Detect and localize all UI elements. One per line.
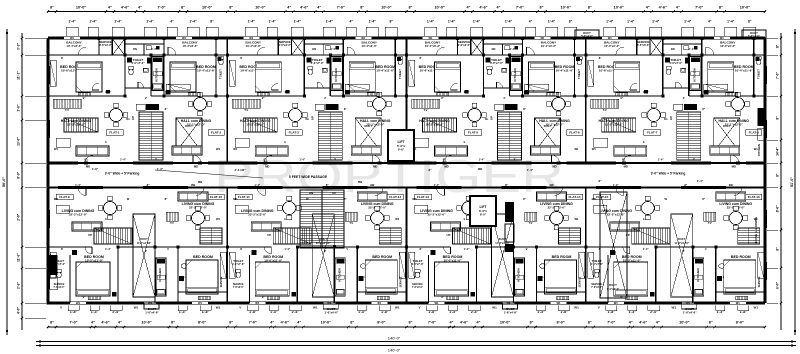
svg-text:10'-0": 10'-0" [76,6,87,10]
svg-text:SERVICE: SERVICE [591,283,602,286]
svg-text:FLAT-2: FLAT-2 [211,131,222,135]
svg-text:1'-4": 1'-4" [369,20,377,24]
svg-text:V: V [346,247,348,251]
svg-text:TOILET: TOILET [756,69,760,79]
svg-text:1'-6"x4'-6": 1'-6"x4'-6" [324,311,338,315]
svg-text:1'-4": 1'-4" [105,90,111,94]
bottom flat module 15 [585,188,587,304]
svg-text:15'-1"x12'-0": 15'-1"x12'-0" [187,123,206,127]
party wall flat 3 [226,38,228,163]
dining table flat 10 [192,212,205,225]
svg-text:8": 8" [588,321,592,325]
svg-text:W1: W1 [134,306,139,310]
dining table flat 12 [371,212,384,225]
svg-text:8": 8" [709,321,713,325]
svg-text:11'-4"x4'-10": 11'-4"x4'-10" [316,242,331,245]
svg-text:UP: UP [447,233,451,237]
bed flat 9 [76,262,110,296]
svg-text:V: V [60,306,62,310]
duct shaft flat 11 [312,214,334,297]
svg-text:1'-4": 1'-4" [284,90,290,94]
svg-text:11'-4"x4'-10": 11'-4"x4'-10" [674,242,689,245]
svg-text:2'-0": 2'-0" [17,104,21,111]
svg-text:5'-6": 5'-6" [398,148,405,152]
svg-text:1'-4": 1'-4" [254,183,260,187]
lift U [388,130,414,161]
svg-text:W1: W1 [249,36,254,40]
svg-text:7'-6"x3'-0": 7'-6"x3'-0" [412,287,423,289]
svg-text:9W: 9W [549,183,553,187]
svg-text:10'-4"x3'-3": 10'-4"x3'-3" [66,44,82,48]
duct shaft between flats 7,8 [714,118,740,152]
svg-text:8": 8" [210,20,214,24]
svg-text:7'-0": 7'-0" [607,321,615,325]
svg-text:1'-4": 1'-4" [326,20,334,24]
svg-text:4": 4" [118,321,122,325]
svg-text:1'-4": 1'-4" [146,20,154,24]
svg-text:1'-8": 1'-8" [428,310,436,314]
dining table flat 3 [289,109,302,122]
svg-text:4": 4" [629,321,633,325]
svg-text:8": 8" [776,44,780,48]
bed flat 1 [76,62,102,92]
bottom dimension chain [48,326,765,328]
svg-text:FLAT-13: FLAT-13 [417,195,429,199]
svg-text:FLAT-12: FLAT-12 [389,195,401,199]
svg-text:10'-4"x3'-3": 10'-4"x3'-3" [425,44,441,48]
svg-text:2'-4": 2'-4" [112,310,120,314]
svg-text:10'-0": 10'-0" [614,6,625,10]
svg-text:5'-0"x4'-0": 5'-0"x4'-0" [581,35,593,38]
svg-text:15'-1"x12'-0": 15'-1"x12'-0" [366,123,385,127]
svg-text:4": 4" [91,321,95,325]
svg-text:1'-3": 1'-3" [157,167,164,171]
svg-text:8": 8" [540,6,544,10]
top dimension chain row 1 [48,11,765,13]
corridor walls [48,162,765,164]
svg-text:TOILET: TOILET [219,69,223,79]
svg-text:W1: W1 [556,301,561,305]
svg-text:140'-0": 140'-0" [388,336,401,341]
svg-text:TOILET: TOILET [398,69,402,79]
svg-text:8'-0": 8'-0" [17,171,21,178]
svg-text:56'-0": 56'-0" [2,177,6,187]
svg-text:8": 8" [229,321,233,325]
svg-text:FLAT-10: FLAT-10 [210,195,222,199]
svg-text:W1: W1 [614,301,619,305]
svg-text:8": 8" [181,6,185,10]
svg-text:3'-6"x3'-0": 3'-6"x3'-0" [458,43,471,47]
svg-text:1'-3": 1'-3" [629,310,637,314]
svg-text:4'-0"x7'-6": 4'-0"x7'-6" [591,262,604,266]
svg-text:1'-4": 1'-4" [89,20,97,24]
svg-text:15'-1"x12'-0": 15'-1"x12'-0" [545,123,564,127]
svg-text:8'-0": 8'-0" [776,205,780,212]
secondary stair flat 5 [423,118,457,132]
svg-text:MD: MD [86,165,90,169]
svg-text:8": 8" [350,321,354,325]
duct shaft between flats 1,2 [176,118,202,152]
svg-text:2'-4 1/2": 2'-4 1/2" [234,168,246,172]
svg-text:T.V: T.V [349,221,353,225]
svg-text:4": 4" [646,6,650,10]
svg-text:SERVICE: SERVICE [579,276,582,287]
svg-text:V: V [155,157,157,161]
svg-text:FLAT-6: FLAT-6 [569,131,580,135]
svg-text:4'-0"x7'-6": 4'-0"x7'-6" [411,262,424,266]
svg-text:W1: W1 [54,147,59,151]
svg-text:10'-4"x3'-3": 10'-4"x3'-3" [362,44,378,48]
secondary stair flat 1 [64,118,98,132]
svg-text:10'-4"x3'-3": 10'-4"x3'-3" [541,44,557,48]
svg-text:7'-0": 7'-0" [516,6,524,10]
svg-text:V: V [526,247,528,251]
svg-text:1'-4": 1'-4" [284,247,290,251]
svg-text:1'-8": 1'-8" [202,310,210,314]
svg-text:1'-4": 1'-4" [684,20,692,24]
sofa flat 3 [255,146,288,156]
svg-text:V: V [705,247,707,251]
svg-text:DN: DN [312,47,316,51]
svg-text:4'-6": 4'-6" [659,6,667,10]
svg-text:1'-4": 1'-4" [479,158,485,162]
svg-text:1'-4": 1'-4" [652,20,660,24]
svg-text:2': 2' [503,96,505,100]
svg-text:8'-0": 8'-0" [557,321,565,325]
svg-text:4": 4" [477,321,481,325]
svg-text:15'-1"x12'-0": 15'-1"x12'-0" [725,123,744,127]
svg-text:8': 8' [61,56,63,60]
svg-text:8": 8" [229,6,233,10]
svg-text:W1: W1 [574,217,579,221]
svg-text:7'-0": 7'-0" [776,72,780,79]
bed flat 2 [170,62,196,92]
svg-text:FLAT-16: FLAT-16 [748,195,760,199]
kitchen appliance stack [505,202,514,222]
svg-text:T.V: T.V [244,108,248,112]
svg-text:8": 8" [171,321,175,325]
svg-text:1'-6"x4'-6": 1'-6"x4'-6" [145,311,159,315]
svg-text:FLAT-15: FLAT-15 [596,195,608,199]
svg-text:6'-0"x4'-0": 6'-0"x4'-0" [607,287,620,291]
svg-text:1'-3": 1'-3" [91,310,99,314]
svg-text:22'-2"x12'-0": 22'-2"x12'-0" [248,213,267,217]
svg-text:1'-4": 1'-4" [114,20,122,24]
svg-text:7'-0": 7'-0" [428,321,436,325]
svg-text:4'-0"x7'-0": 4'-0"x7'-0" [490,61,504,65]
internal stair flat 9 [94,228,132,244]
svg-text:1'-4": 1'-4" [627,20,635,24]
svg-text:V: V [514,157,516,161]
svg-text:W1: W1 [182,36,187,40]
tall duct shaft module4 [600,192,627,298]
svg-text:10'-4"x11'-6": 10'-4"x11'-6" [376,69,394,73]
svg-text:7'-0": 7'-0" [337,6,345,10]
svg-text:1'-3": 1'-3" [717,310,725,314]
svg-text:10'-4"x3'-3": 10'-4"x3'-3" [182,44,198,48]
svg-text:T.V: T.V [65,108,69,112]
svg-text:T.V: T.V [603,108,607,112]
svg-text:10'-4"x11'-6": 10'-4"x11'-6" [735,69,753,73]
svg-text:UP: UP [310,116,314,120]
svg-text:SERVICE: SERVICE [412,283,423,286]
svg-text:2': 2' [145,96,147,100]
svg-text:5 FEET WIDE PASSAGE: 5 FEET WIDE PASSAGE [289,175,328,179]
svg-text:9W: 9W [198,180,203,184]
main staircase [300,190,344,248]
svg-text:10'-4"x11'-6": 10'-4"x11'-6" [197,69,215,73]
svg-text:UP: UP [669,116,673,120]
svg-text:KITCHEN: KITCHEN [155,68,159,81]
svg-text:3'-0" Wide + 5' Parking: 3'-0" Wide + 5' Parking [651,172,686,176]
svg-text:1'-4": 1'-4" [473,20,481,24]
party wall flat 7 [585,38,587,163]
svg-text:4'-0"x7'-6": 4'-0"x7'-6" [232,262,245,266]
dining table flat 11 [283,202,296,215]
internal staircase flat 5 [498,112,522,160]
svg-text:T.V: T.V [170,221,174,225]
bottom flat module 9 [47,188,49,304]
svg-text:8': 8' [240,247,242,251]
svg-text:6'-0": 6'-0" [480,213,487,217]
svg-text:1'-4": 1'-4" [606,20,614,24]
internal staircase flat 7 [677,112,701,160]
svg-text:FLAT-3: FLAT-3 [289,131,300,135]
svg-text:6'-0": 6'-0" [776,282,780,289]
svg-text:1'-4": 1'-4" [643,90,649,94]
left dimension chain [6,29,8,335]
svg-text:8": 8" [409,6,413,10]
svg-text:W1: W1 [574,147,579,151]
bed flat 10 [186,260,218,294]
svg-text:TOILET: TOILET [577,69,581,79]
svg-text:4": 4" [287,6,291,10]
bed flat 3 [255,62,281,92]
svg-text:UP: UP [490,116,494,120]
svg-text:W1: W1 [592,147,597,151]
svg-text:MD: MD [592,197,596,201]
outer walls [48,36,765,39]
right edge kitchen counter [758,108,765,126]
svg-text:DN: DN [133,47,137,51]
svg-text:2'-4": 2'-4" [650,310,658,314]
svg-text:10'-4"x11'-6": 10'-4"x11'-6" [556,69,574,73]
svg-text:SERVICE: SERVICE [758,276,761,287]
sofa flat 11 [251,222,281,231]
svg-text:2': 2' [683,96,685,100]
svg-text:7'-0": 7'-0" [157,6,165,10]
svg-text:1'-4": 1'-4" [643,247,649,251]
svg-text:1'-4": 1'-4" [269,20,277,24]
parking leader line [155,170,263,178]
sofa flat 15 [610,222,640,231]
svg-text:8": 8" [776,247,780,251]
duct shaft between flats 5,6 [535,118,561,152]
svg-text:22'-2"x12'-0": 22'-2"x12'-0" [607,213,626,217]
svg-text:1'-4": 1'-4" [299,158,305,162]
svg-text:UP: UP [626,233,630,237]
svg-text:4'-6": 4'-6" [281,321,289,325]
svg-text:V: V [693,157,695,161]
svg-text:1'-3": 1'-3" [358,310,366,314]
svg-text:2': 2' [324,96,326,100]
svg-text:4'-6": 4'-6" [121,6,129,10]
svg-text:T.V: T.V [529,221,533,225]
svg-text:4'-6": 4'-6" [460,321,468,325]
svg-text:3'-6"x3'-0": 3'-6"x3'-0" [279,43,292,47]
internal stair flat 12 [379,228,401,244]
svg-text:8'-0": 8'-0" [736,321,744,325]
bed flat 13 [435,262,469,296]
svg-text:W1: W1 [736,301,741,305]
svg-text:Dn: Dn [305,117,309,121]
service duct flat 1 [113,39,125,55]
svg-text:1'-3": 1'-3" [449,310,457,314]
svg-text:FLAT-7: FLAT-7 [647,131,658,135]
lift U2 (bottom band) [470,196,496,226]
svg-text:W1: W1 [428,36,433,40]
svg-text:2'-0": 2'-0" [17,213,21,220]
svg-text:1'-4": 1'-4" [505,20,513,24]
left edge kitchen counter [50,255,58,275]
svg-text:7'-6"x3'-0": 7'-6"x3'-0" [54,287,65,289]
svg-text:11'-1": 11'-1" [17,71,21,80]
svg-text:8'-0": 8'-0" [377,321,385,325]
svg-text:DUCT: DUCT [678,237,686,241]
bottom flat module 11 [226,188,228,304]
svg-text:10'-0": 10'-0" [381,6,392,10]
party wall flat 5 [406,38,408,163]
svg-text:W1: W1 [395,217,400,221]
svg-text:13'-0": 13'-0" [17,137,21,146]
sofa flat 5 [435,146,468,156]
svg-text:2': 2' [145,249,147,253]
svg-text:10'-0": 10'-0" [560,6,571,10]
bed flat 5 [435,62,461,92]
svg-text:MD: MD [194,165,198,169]
svg-text:10'-0": 10'-0" [202,6,213,10]
svg-text:1'-4": 1'-4" [464,247,470,251]
sofa flat 1 [76,146,109,156]
svg-text:MD: MD [54,197,58,201]
svg-text:3'-0" Wide + 5' Parking: 3'-0" Wide + 5' Parking [105,172,140,176]
svg-text:W1: W1 [198,301,203,305]
svg-text:LIVING cum DINING: LIVING cum DINING [754,217,758,243]
svg-text:7'-0": 7'-0" [249,321,257,325]
svg-text:FLAT-1: FLAT-1 [109,131,120,135]
svg-text:1'-4": 1'-4" [120,158,126,162]
svg-text:1'-6"x4'-6": 1'-6"x4'-6" [504,311,518,315]
internal stair flat 13 [453,228,491,244]
svg-text:UP: UP [332,191,336,195]
svg-text:MD: MD [265,165,269,169]
svg-text:10'-0": 10'-0" [740,6,751,10]
svg-text:1'-4": 1'-4" [344,90,350,94]
internal stair flat 10 [200,228,222,244]
svg-text:4": 4" [450,321,454,325]
svg-text:KITCHEN: KITCHEN [334,68,338,81]
svg-text:3'-6"x3'-0": 3'-6"x3'-0" [637,43,650,47]
duct above top wall A [575,30,599,38]
svg-text:4'-6": 4'-6" [639,321,647,325]
svg-text:SERVICE: SERVICE [54,283,65,286]
svg-text:8": 8" [748,20,752,24]
svg-text:9W: 9W [729,183,733,187]
svg-text:2': 2' [683,249,685,253]
bottom flat module 13 [406,188,408,304]
svg-text:1'-4": 1'-4" [727,20,735,24]
svg-text:W1: W1 [233,147,238,151]
bed flat 12 [365,260,397,294]
svg-text:3'-3": 3'-3" [17,43,21,50]
svg-text:1'-4": 1'-4" [448,20,456,24]
svg-text:11'-6": 11'-6" [17,253,21,262]
svg-text:DN: DN [492,47,496,51]
svg-text:4": 4" [297,321,301,325]
svg-text:MD: MD [233,197,237,201]
svg-text:9W: 9W [478,167,483,171]
duct above top wall B [742,30,766,38]
svg-text:KITCHEN: KITCHEN [757,144,761,156]
bottom window markers [67,306,69,311]
svg-text:MD: MD [373,165,377,169]
service duct flat 7 [650,39,662,55]
svg-text:11'-4"x4'-10": 11'-4"x4'-10" [137,242,152,245]
svg-text:4": 4" [317,6,321,10]
svg-text:9W: 9W [370,183,374,187]
svg-text:W1: W1 [720,36,725,40]
svg-text:1'-6"x4'-6": 1'-6"x4'-6" [683,311,697,315]
dining table flat 15 [641,202,654,215]
svg-text:W1: W1 [216,147,221,151]
bed flat 16 [724,260,756,294]
dining table flat 8 [731,98,744,111]
side wall windows [46,66,48,84]
internal stair flat 16 [738,228,760,244]
svg-text:8": 8" [776,173,780,177]
duct shaft flat 9 [133,214,155,297]
svg-text:W1: W1 [434,301,439,305]
svg-text:7'-0": 7'-0" [69,321,77,325]
bed flat 15 [614,262,648,296]
svg-text:1'-3": 1'-3" [179,310,187,314]
svg-text:8'1: 8'1 [622,158,626,162]
bed flat 7 [614,62,640,92]
svg-text:4": 4" [170,20,174,24]
corridor wall dark segments [48,162,78,165]
svg-text:DUCT: DUCT [499,237,507,241]
svg-text:8": 8" [719,6,723,10]
svg-text:8": 8" [776,116,780,120]
svg-text:4'-6": 4'-6" [300,6,308,10]
svg-text:10'-0": 10'-0" [321,321,332,325]
svg-text:MD: MD [444,165,448,169]
svg-text:UP: UP [267,233,271,237]
svg-text:1'-4": 1'-4" [697,179,704,183]
svg-text:MD: MD [624,165,628,169]
svg-text:8'1: 8'1 [84,158,88,162]
svg-text:W1: W1 [492,306,497,310]
svg-text:7'-6"x3'-0": 7'-6"x3'-0" [591,287,602,289]
svg-text:8": 8" [409,321,413,325]
party wall flat 1 [47,38,49,163]
svg-text:8": 8" [569,20,573,24]
svg-text:FLAT-5: FLAT-5 [468,131,479,135]
svg-text:4'-0"x7'-0": 4'-0"x7'-0" [131,61,145,65]
svg-text:7'-6"x3'-0": 7'-6"x3'-0" [233,287,244,289]
svg-text:8": 8" [360,6,364,10]
svg-text:W1: W1 [574,306,579,310]
